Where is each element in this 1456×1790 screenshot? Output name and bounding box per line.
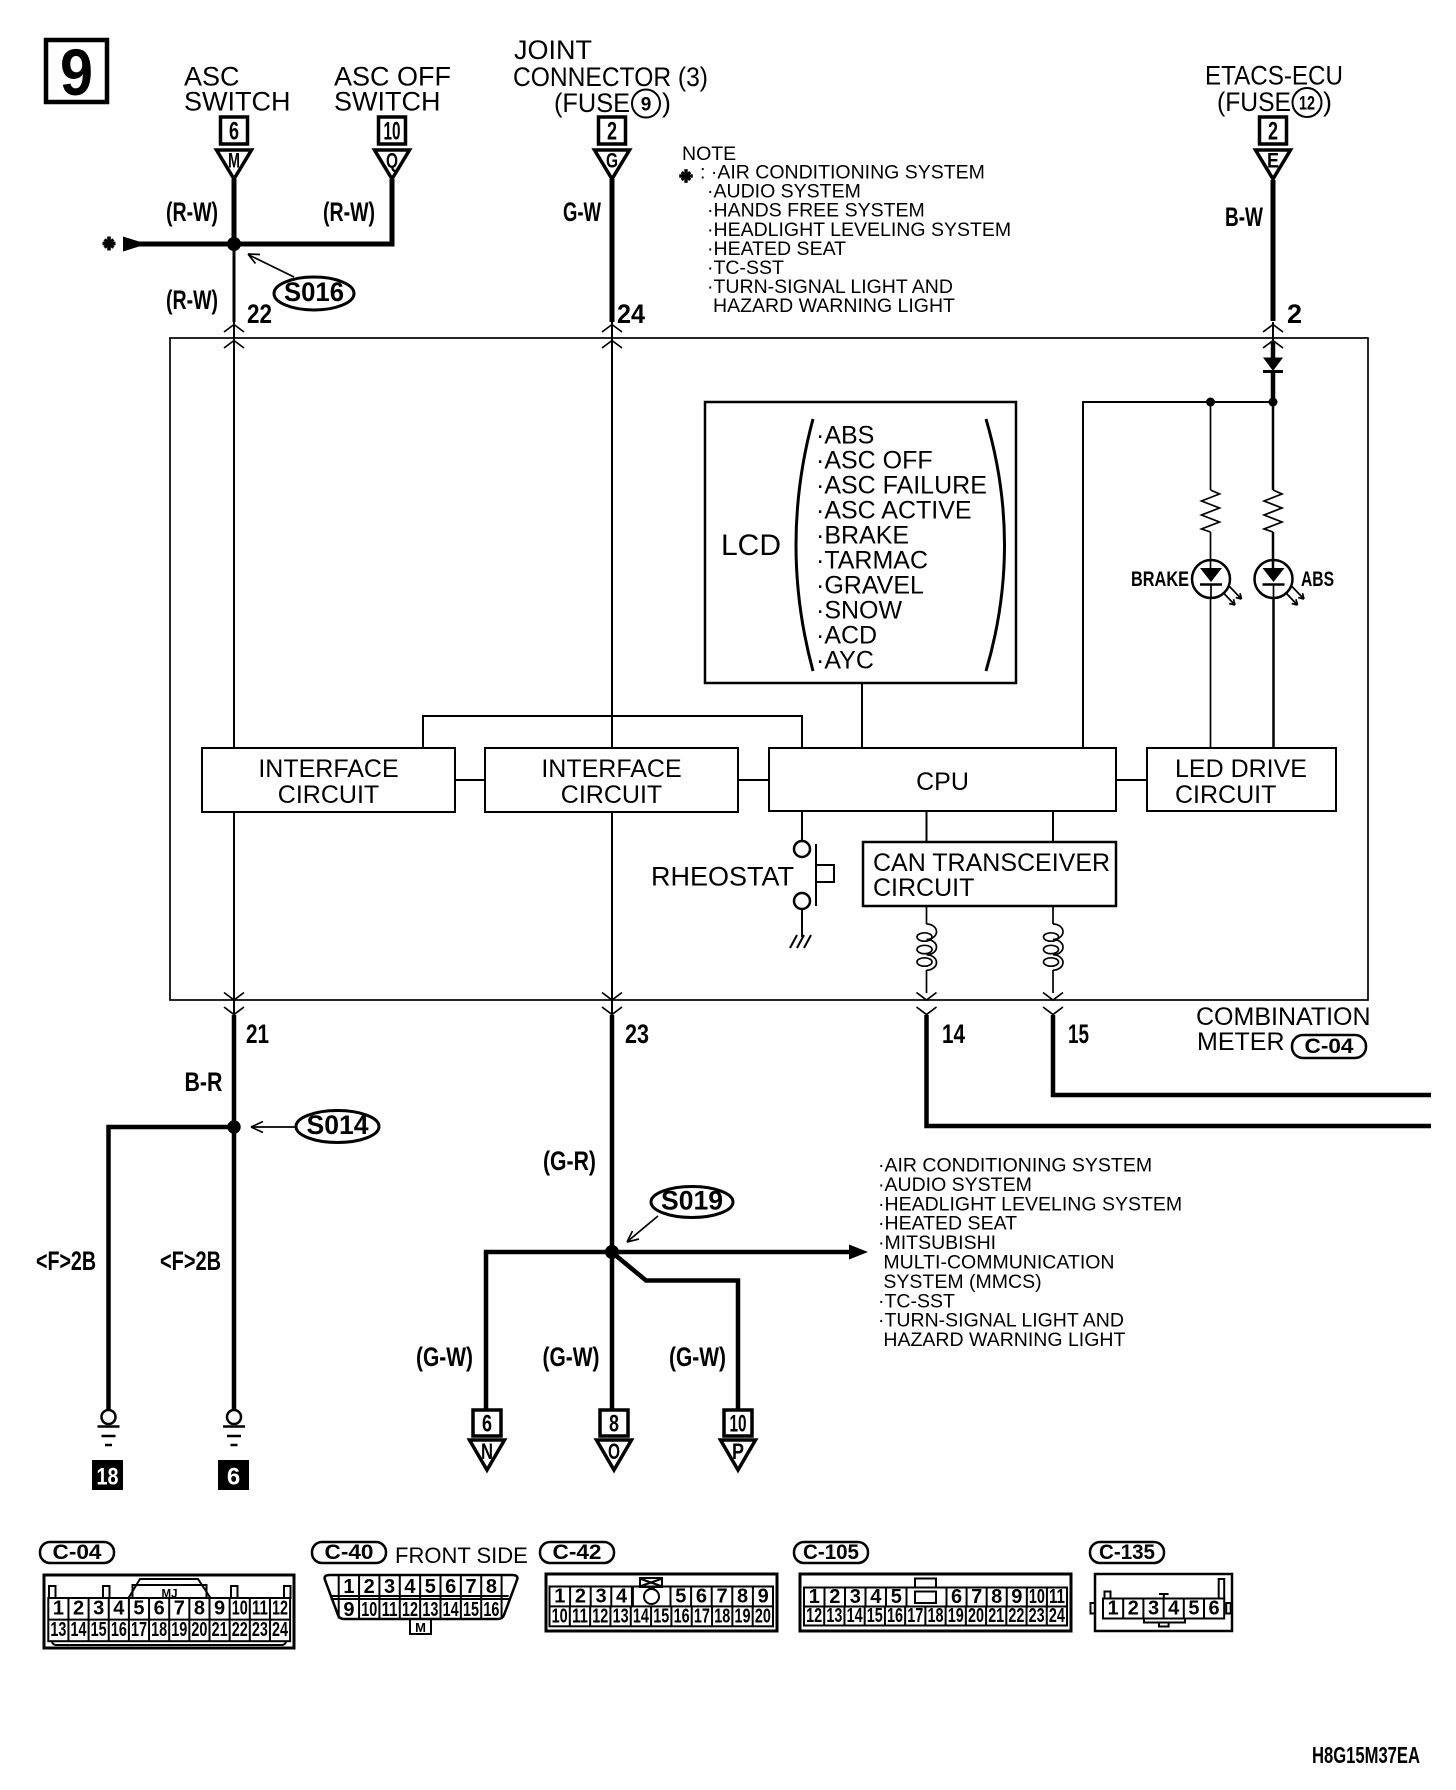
wire junction to left arrow [135, 242, 234, 247]
LED brake [1192, 560, 1242, 605]
svg-text:2: 2 [1287, 299, 1302, 329]
svg-text:S016: S016 [284, 277, 344, 307]
svg-text:16: 16 [483, 1599, 499, 1621]
svg-text:19: 19 [735, 1605, 751, 1627]
ground right [223, 1410, 245, 1445]
svg-text:7: 7 [465, 1576, 476, 1598]
svg-text:23: 23 [252, 1619, 268, 1641]
svg-text:·AYC: ·AYC [816, 647, 874, 675]
svg-text:INTERFACE: INTERFACE [258, 755, 398, 783]
wire LCD to CPU [861, 683, 863, 749]
svg-text:1: 1 [343, 1576, 354, 1598]
svg-text:3: 3 [384, 1576, 395, 1598]
svg-text:18: 18 [151, 1619, 167, 1641]
wire Q-switch drop [390, 179, 395, 247]
svg-text:13: 13 [422, 1599, 438, 1621]
svg-text:LED DRIVE: LED DRIVE [1175, 755, 1307, 783]
LED abs [1255, 560, 1305, 605]
connector view C-135 [1091, 1574, 1233, 1631]
svg-text:1: 1 [53, 1598, 64, 1620]
svg-text:20: 20 [191, 1619, 207, 1641]
svg-text:16: 16 [111, 1619, 127, 1641]
wire CPU to CAN pin15 [1052, 811, 1054, 842]
wire resistor to abs LED [1272, 532, 1275, 568]
wire branch to connector O [610, 1252, 615, 1410]
svg-text:10: 10 [361, 1599, 377, 1621]
svg-text:6: 6 [1209, 1598, 1220, 1620]
svg-text:11: 11 [382, 1599, 398, 1621]
label COMBINATION METER [1196, 1003, 1371, 1056]
connector 6/N [470, 1410, 505, 1470]
svg-text:M: M [415, 1620, 426, 1635]
splice S014 callout [251, 1110, 379, 1143]
header ASC SWITCH [184, 62, 290, 117]
inductor coil pin14 [926, 906, 928, 924]
systems list (S019) [878, 1155, 1182, 1352]
connector tag C-42 [540, 1541, 614, 1564]
svg-text:24: 24 [272, 1619, 289, 1641]
svg-text:·ABS: ·ABS [816, 422, 874, 450]
svg-text:6: 6 [229, 118, 239, 146]
bus interface1-CPU [423, 716, 802, 748]
svg-text:8: 8 [486, 1576, 497, 1598]
svg-text:(G-W): (G-W) [543, 1342, 600, 1372]
svg-text:5: 5 [133, 1598, 144, 1620]
svg-text:6: 6 [154, 1598, 165, 1620]
svg-text:15: 15 [1068, 1019, 1089, 1049]
svg-text:9: 9 [343, 1599, 354, 1621]
svg-text:B-W: B-W [1225, 202, 1263, 232]
wire pin22 to interface circuit 1 [233, 322, 235, 749]
svg-text:(FUSE: (FUSE [554, 88, 630, 118]
svg-text:5: 5 [1188, 1598, 1199, 1620]
resistor abs [1264, 490, 1282, 532]
svg-text:M: M [228, 150, 240, 173]
wire branch to connector P [614, 1254, 738, 1410]
wire rheostat to chassis ground [801, 909, 803, 937]
svg-text:(R-W): (R-W) [166, 197, 218, 227]
wire (R-W) junction to pin 22 [233, 244, 236, 322]
svg-text:14: 14 [633, 1605, 650, 1627]
CPU box [769, 748, 1116, 811]
svg-text:10: 10 [552, 1605, 568, 1627]
svg-text:O: O [608, 1439, 620, 1464]
note block [679, 143, 1011, 317]
svg-text:10: 10 [232, 1598, 248, 1620]
svg-text:22: 22 [232, 1619, 248, 1641]
svg-text:INTERFACE: INTERFACE [541, 755, 681, 783]
svg-text:BRAKE: BRAKE [1131, 568, 1189, 591]
pin 14 exit chevrons [917, 993, 937, 1001]
LED supply rail [1083, 402, 1273, 748]
connector tag C-04 (meter) [1292, 1035, 1366, 1058]
wire G-R pin23 down [610, 1015, 615, 1252]
wire Q to junction S016 [234, 242, 395, 247]
interface circuit 2 box [485, 748, 738, 812]
svg-text:(G-R): (G-R) [543, 1146, 596, 1176]
svg-text:8: 8 [194, 1598, 205, 1620]
ground ref 6 box [218, 1460, 249, 1491]
svg-text:11: 11 [572, 1605, 588, 1627]
arrowhead to other systems (left) [123, 237, 139, 252]
wire interface2 to pin23 [611, 812, 613, 1014]
svg-text:12: 12 [272, 1598, 288, 1620]
pin 15 exit chevrons [1043, 993, 1063, 1001]
connector view C-42 [546, 1574, 777, 1631]
svg-text:3: 3 [595, 1585, 606, 1607]
chassis ground hatch [790, 935, 811, 948]
svg-text:15: 15 [463, 1599, 479, 1621]
svg-text:Q: Q [386, 150, 398, 173]
svg-text:G-W: G-W [563, 197, 601, 227]
svg-text:7: 7 [174, 1598, 185, 1620]
svg-text:·ASC ACTIVE: ·ASC ACTIVE [816, 497, 972, 525]
connector 10/P [721, 1410, 756, 1470]
wire brake LED to LED drive [1210, 598, 1212, 748]
svg-text:14: 14 [71, 1619, 88, 1641]
svg-text:METER: METER [1197, 1028, 1285, 1056]
svg-text:<F>2B: <F>2B [160, 1246, 221, 1276]
svg-text:·GRAVEL: ·GRAVEL [816, 572, 924, 600]
wire pin14 to right [927, 1015, 1432, 1126]
svg-text:·ASC FAILURE: ·ASC FAILURE [816, 472, 987, 500]
svg-text:6: 6 [445, 1576, 456, 1598]
svg-text:SWITCH: SWITCH [184, 87, 290, 117]
svg-text:·SNOW: ·SNOW [816, 597, 903, 625]
svg-text:(FUSE: (FUSE [1217, 87, 1291, 117]
svg-text:4: 4 [616, 1585, 628, 1607]
svg-text:(R-W): (R-W) [166, 285, 218, 315]
pin 22 entry chevrons [224, 325, 244, 333]
svg-text:HAZARD WARNING LIGHT: HAZARD WARNING LIGHT [878, 1329, 1125, 1351]
svg-text:9: 9 [60, 35, 93, 109]
svg-text:B-R: B-R [185, 1067, 223, 1097]
svg-text:6: 6 [482, 1411, 492, 1438]
svg-text:17: 17 [131, 1619, 147, 1641]
svg-text:2: 2 [364, 1576, 375, 1598]
svg-text:3: 3 [93, 1598, 104, 1620]
wire pin2 to diode [1272, 322, 1274, 341]
header ASC OFF SWITCH [334, 62, 451, 117]
wire brake branch upper [1210, 402, 1212, 490]
combination meter box [170, 338, 1368, 1000]
wire M-switch drop [232, 179, 237, 244]
svg-text:SWITCH: SWITCH [334, 87, 440, 117]
svg-text:ABS: ABS [1301, 568, 1334, 591]
asterisk [103, 237, 116, 251]
LCD right parenthesis [986, 419, 1005, 671]
svg-text:E: E [1267, 150, 1279, 173]
svg-text:13: 13 [613, 1605, 629, 1627]
connector tag C-135 [1090, 1541, 1164, 1564]
rheostat switch [794, 841, 834, 909]
svg-text:16: 16 [674, 1605, 690, 1627]
svg-text:5: 5 [675, 1585, 686, 1607]
svg-text:12: 12 [592, 1605, 608, 1627]
svg-text:P: P [732, 1439, 744, 1464]
svg-text:4: 4 [404, 1576, 416, 1598]
LED drive circuit box [1147, 748, 1336, 811]
svg-text:LCD: LCD [721, 529, 781, 562]
wire junction to left ground branch [109, 1127, 235, 1410]
svg-text:24: 24 [1049, 1605, 1066, 1627]
svg-text:(R-W): (R-W) [323, 197, 375, 227]
svg-text:N: N [481, 1439, 493, 1464]
svg-text:2: 2 [607, 118, 617, 146]
connector 2/E (ETACS-ECU) [1256, 117, 1291, 179]
svg-text:C-42: C-42 [553, 1541, 602, 1564]
svg-text:18: 18 [714, 1605, 730, 1627]
svg-text:): ) [662, 88, 671, 118]
svg-text:CIRCUIT: CIRCUIT [1175, 781, 1276, 809]
link interface2-CPU [738, 779, 769, 781]
svg-text:C-105: C-105 [803, 1541, 859, 1564]
connector view C-105 [800, 1574, 1071, 1631]
svg-text:17: 17 [694, 1605, 710, 1627]
svg-text:RHEOSTAT: RHEOSTAT [651, 862, 794, 892]
svg-text:5: 5 [425, 1576, 436, 1598]
diode [1263, 358, 1283, 372]
svg-text:2: 2 [575, 1585, 586, 1607]
arrowhead to other systems (right) [849, 1245, 868, 1260]
CAN transceiver circuit box [863, 842, 1116, 906]
svg-text:19: 19 [948, 1605, 964, 1627]
svg-text:21: 21 [988, 1605, 1004, 1627]
wire G-W joint connector drop [610, 179, 615, 322]
inductor coil pin15 [1052, 906, 1054, 924]
wire branch to connector N [486, 1252, 612, 1410]
link CPU-LED drive [1116, 779, 1147, 781]
svg-text:23: 23 [1029, 1605, 1045, 1627]
wire B-R pin21 down [232, 1015, 237, 1410]
svg-text:·BRAKE: ·BRAKE [816, 522, 909, 550]
svg-text:9: 9 [214, 1598, 225, 1620]
wire CPU to CAN pin14 [926, 811, 928, 842]
svg-text:21: 21 [212, 1619, 228, 1641]
svg-text:1: 1 [554, 1585, 565, 1607]
svg-text:1: 1 [1108, 1598, 1119, 1620]
svg-text:C-40: C-40 [325, 1541, 374, 1564]
node S016 junction dot [227, 237, 241, 251]
svg-text:12: 12 [806, 1605, 822, 1627]
svg-text:21: 21 [246, 1019, 269, 1049]
svg-text:9: 9 [758, 1585, 769, 1607]
connector 2/G (joint connector) [595, 117, 630, 179]
svg-text:6: 6 [696, 1585, 707, 1607]
svg-text:16: 16 [887, 1605, 903, 1627]
svg-text:C-04: C-04 [1305, 1035, 1354, 1058]
svg-text:12: 12 [402, 1599, 418, 1621]
pin 24 entry chevrons [602, 325, 622, 333]
svg-text:15: 15 [867, 1605, 883, 1627]
connector view C-04 [44, 1575, 294, 1648]
svg-text:4: 4 [1168, 1598, 1180, 1620]
wire abs branch upper [1272, 402, 1275, 490]
svg-text:12: 12 [1299, 94, 1315, 115]
LCD message list [816, 422, 987, 675]
svg-text:8: 8 [609, 1411, 619, 1438]
wire diode to rail [1271, 373, 1276, 403]
svg-text:CPU: CPU [916, 768, 969, 796]
LCD box [705, 402, 1016, 683]
svg-text:22: 22 [247, 299, 272, 329]
svg-text:ETACS-ECU: ETACS-ECU [1205, 61, 1343, 91]
svg-text:14: 14 [847, 1605, 864, 1627]
pin 21 exit chevrons [224, 993, 244, 1001]
connector tag C-40 [312, 1541, 386, 1564]
svg-text:S014: S014 [307, 1110, 369, 1140]
svg-text:15: 15 [91, 1619, 107, 1641]
header ETACS-ECU (FUSE 12) [1205, 61, 1343, 118]
svg-text:11: 11 [252, 1598, 268, 1620]
svg-text:9: 9 [641, 95, 652, 116]
node S019 junction dot [605, 1245, 619, 1259]
svg-text:CIRCUIT: CIRCUIT [561, 781, 662, 809]
node rail/brake dot [1206, 398, 1215, 407]
interface circuit 1 box [202, 748, 455, 812]
svg-text:G: G [606, 150, 618, 173]
svg-text:18: 18 [928, 1605, 944, 1627]
wire abs LED to LED drive [1272, 598, 1275, 748]
svg-text:24: 24 [617, 299, 645, 329]
wire pin15 to right [1053, 1015, 1431, 1095]
splice S019 callout [627, 1186, 733, 1243]
node rail/abs dot [1269, 398, 1278, 407]
svg-text:20: 20 [968, 1605, 984, 1627]
svg-text:20: 20 [755, 1605, 771, 1627]
svg-text:18: 18 [97, 1464, 119, 1491]
wire B-W ETACS drop [1271, 180, 1276, 321]
svg-text:14: 14 [942, 1019, 965, 1049]
svg-text:CAN TRANSCEIVER: CAN TRANSCEIVER [873, 849, 1110, 877]
wire CPU to rheostat [801, 811, 803, 841]
connector view C-40 [325, 1575, 518, 1635]
svg-text:<F>2B: <F>2B [36, 1246, 96, 1276]
wire pin24 to interface circuit 2 [611, 322, 613, 749]
svg-text:JOINT: JOINT [514, 35, 592, 65]
LCD left parenthesis [796, 419, 813, 671]
link interface1-interface2 [455, 779, 485, 781]
svg-text:6: 6 [227, 1464, 240, 1491]
svg-text:10: 10 [384, 118, 401, 146]
svg-text:FRONT SIDE: FRONT SIDE [395, 1543, 528, 1568]
svg-text:14: 14 [443, 1599, 460, 1621]
svg-text:CIRCUIT: CIRCUIT [873, 874, 974, 902]
svg-text:23: 23 [625, 1019, 649, 1049]
splice S016 callout [248, 254, 354, 310]
resistor brake [1202, 490, 1220, 532]
connector 6/M (ASC switch) [217, 117, 252, 179]
svg-text:2: 2 [1268, 118, 1278, 146]
svg-text:(G-W): (G-W) [416, 1342, 473, 1372]
header JOINT CONNECTOR (3) (FUSE 9) [513, 35, 708, 118]
svg-text:4: 4 [113, 1598, 125, 1620]
svg-text:C-135: C-135 [1099, 1541, 1155, 1564]
svg-text:15: 15 [653, 1605, 669, 1627]
connector tag C-04 [40, 1541, 114, 1564]
node S014 junction dot [227, 1120, 240, 1133]
ground left [98, 1410, 120, 1445]
svg-text:8: 8 [737, 1585, 748, 1607]
svg-text:2: 2 [1128, 1598, 1139, 1620]
wire resistor to brake LED [1210, 532, 1212, 568]
svg-text:·ACD: ·ACD [816, 622, 877, 650]
connector 10/Q (ASC OFF switch) [375, 117, 410, 179]
wire interface1 to pin21 [233, 812, 235, 1014]
sheet number 9 box [46, 35, 107, 109]
connector 8/O [597, 1410, 632, 1470]
svg-text:10: 10 [730, 1411, 747, 1438]
svg-text:C-04: C-04 [53, 1541, 102, 1564]
pin 23 exit chevrons [602, 993, 622, 1001]
svg-text:H8G15M37EA: H8G15M37EA [1312, 1742, 1420, 1768]
pin 2 entry chevrons [1263, 325, 1283, 333]
ground ref 18 box [92, 1460, 123, 1491]
svg-text:(G-W): (G-W) [669, 1342, 726, 1372]
svg-text:HAZARD WARNING LIGHT: HAZARD WARNING LIGHT [713, 295, 955, 317]
svg-text:3: 3 [1148, 1598, 1159, 1620]
svg-text:CIRCUIT: CIRCUIT [278, 781, 379, 809]
svg-text:22: 22 [1008, 1605, 1024, 1627]
wire S019 to other systems arrow [612, 1250, 851, 1255]
svg-text:7: 7 [716, 1585, 727, 1607]
svg-text:13: 13 [826, 1605, 842, 1627]
svg-text:19: 19 [171, 1619, 187, 1641]
svg-text:·ASC OFF: ·ASC OFF [816, 447, 933, 475]
svg-text:): ) [1323, 87, 1332, 117]
svg-text:·TARMAC: ·TARMAC [816, 547, 928, 575]
svg-text:2: 2 [73, 1598, 84, 1620]
svg-text:S019: S019 [661, 1186, 723, 1216]
connector tag C-105 [794, 1541, 868, 1564]
svg-text:13: 13 [50, 1619, 66, 1641]
svg-text:17: 17 [907, 1605, 923, 1627]
svg-text:COMBINATION: COMBINATION [1196, 1003, 1371, 1031]
